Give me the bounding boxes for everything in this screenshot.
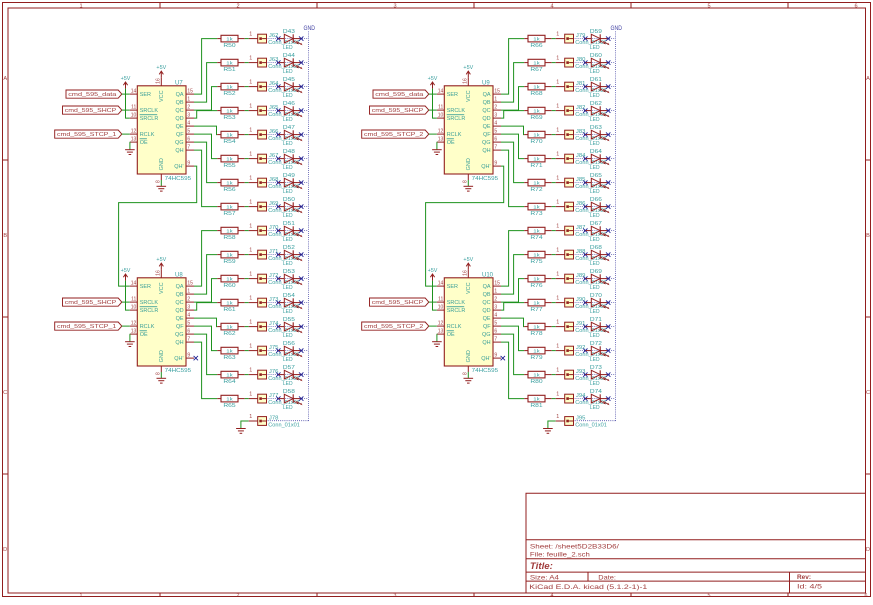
svg-text:1: 1 — [556, 368, 559, 374]
svg-text:QB: QB — [483, 292, 491, 298]
note line to GND bus — [267, 302, 309, 304]
resistor R58 — [217, 227, 245, 241]
connector J95 Conn_01x01 pin 1 — [556, 414, 607, 428]
svg-text:R71: R71 — [530, 163, 542, 169]
svg-text:R79: R79 — [530, 355, 542, 361]
note line to GND bus — [267, 254, 309, 256]
no-connect flag — [606, 324, 610, 328]
wire +5V to SRCLR — [126, 89, 130, 119]
svg-text:OE: OE — [140, 140, 148, 146]
wire R54 to J66 — [245, 134, 249, 136]
no-connect flag — [299, 156, 303, 160]
svg-text:2: 2 — [494, 105, 497, 111]
power +5V on VCC pin 16 — [463, 257, 473, 270]
svg-text:1: 1 — [249, 128, 252, 134]
note line to GND bus — [574, 278, 616, 280]
wire R72 to J85 — [552, 182, 556, 184]
svg-text:R73: R73 — [530, 211, 542, 217]
svg-text:cmd_595_data: cmd_595_data — [68, 92, 117, 98]
svg-text:13: 13 — [131, 329, 137, 335]
svg-text:1: 1 — [249, 296, 252, 302]
no-connect flag — [583, 132, 587, 136]
svg-text:J80: J80 — [576, 57, 586, 63]
no-connect flag — [276, 396, 280, 400]
wire R56 to J68 — [245, 182, 249, 184]
LED D49 — [279, 173, 303, 195]
svg-text:7: 7 — [187, 145, 190, 151]
svg-text:QE: QE — [483, 316, 491, 322]
svg-text:D45: D45 — [283, 77, 295, 83]
svg-text:D66: D66 — [590, 197, 602, 203]
wire IC output to R61 — [194, 303, 217, 311]
no-connect flag — [276, 348, 280, 352]
connector J84 Conn_01x01 pin 1 — [556, 152, 607, 166]
LED D51 — [279, 221, 303, 243]
svg-text:1: 1 — [79, 3, 82, 9]
svg-text:J94: J94 — [576, 393, 586, 399]
no-connect flag on QH' — [194, 356, 198, 360]
note line to GND bus — [574, 302, 616, 304]
svg-text:J65: J65 — [269, 105, 279, 111]
svg-text:3: 3 — [394, 593, 397, 599]
svg-text:QD: QD — [175, 308, 183, 314]
wire R75 to J88 — [552, 254, 556, 256]
svg-text:D67: D67 — [590, 221, 602, 227]
note line to GND bus — [267, 182, 309, 184]
svg-text:1k: 1k — [226, 84, 233, 90]
svg-text:QF: QF — [176, 324, 184, 330]
wire IC output to R79 — [501, 326, 524, 351]
svg-text:14: 14 — [131, 281, 137, 287]
note line to GND bus — [574, 158, 616, 160]
wire IC output to R50 — [194, 39, 217, 95]
no-connect flag — [299, 276, 303, 280]
svg-text:5: 5 — [494, 129, 497, 135]
svg-text:J79: J79 — [576, 33, 586, 39]
svg-text:16: 16 — [156, 78, 162, 84]
resistor R57 — [217, 203, 245, 217]
note line to GND bus — [574, 62, 616, 64]
connector J82 Conn_01x01 pin 1 — [556, 104, 607, 118]
svg-text:LED: LED — [590, 357, 600, 363]
LED D54 — [279, 293, 303, 315]
connector J70 Conn_01x01 pin 1 — [249, 224, 300, 238]
svg-text:12: 12 — [438, 321, 444, 327]
svg-text:J67: J67 — [269, 153, 279, 159]
svg-text:1: 1 — [556, 176, 559, 182]
note line to GND bus — [574, 110, 616, 112]
svg-text:D56: D56 — [283, 341, 295, 347]
svg-text:J82: J82 — [576, 105, 586, 111]
svg-text:RCLK: RCLK — [140, 324, 155, 330]
svg-text:74HC595: 74HC595 — [165, 368, 192, 374]
svg-text:10: 10 — [131, 305, 137, 311]
resistor R51 — [217, 59, 245, 73]
svg-text:J68: J68 — [269, 177, 279, 183]
svg-text:D72: D72 — [590, 341, 602, 347]
svg-text:D43: D43 — [283, 29, 295, 35]
connector J83 Conn_01x01 pin 1 — [556, 128, 607, 142]
connector J71 Conn_01x01 pin 1 — [249, 248, 300, 262]
connector J73 Conn_01x01 pin 1 — [249, 296, 300, 310]
no-connect flag — [583, 36, 587, 40]
svg-text:GND: GND — [303, 25, 315, 32]
svg-text:1k: 1k — [226, 204, 233, 210]
resistor R81 — [524, 395, 552, 409]
svg-text:11: 11 — [438, 105, 443, 111]
svg-text:3: 3 — [187, 113, 190, 119]
svg-text:J66: J66 — [269, 129, 279, 135]
svg-text:1: 1 — [556, 224, 559, 230]
svg-text:LED: LED — [283, 45, 293, 51]
svg-text:SRCLK: SRCLK — [447, 300, 466, 306]
resistor R61 — [217, 299, 245, 313]
LED D63 — [586, 125, 610, 147]
no-connect flag — [583, 300, 587, 304]
svg-text:cmd_595_SHCP: cmd_595_SHCP — [372, 108, 424, 114]
svg-text:J78: J78 — [269, 416, 279, 422]
svg-text:LED: LED — [590, 285, 600, 291]
svg-text:QD: QD — [482, 308, 490, 314]
svg-text:QF: QF — [483, 132, 491, 138]
svg-text:16: 16 — [463, 78, 469, 84]
svg-text:LED: LED — [590, 45, 600, 51]
wire label to RCLK — [429, 325, 437, 327]
svg-text:D54: D54 — [283, 293, 295, 299]
svg-text:1: 1 — [494, 97, 497, 103]
svg-text:4: 4 — [187, 121, 190, 127]
svg-text:LED: LED — [590, 261, 600, 267]
svg-text:LED: LED — [590, 69, 600, 75]
svg-text:R65: R65 — [223, 403, 235, 409]
svg-text:QH': QH' — [174, 356, 183, 362]
svg-text:SRCLK: SRCLK — [140, 300, 159, 306]
svg-text:LED: LED — [590, 141, 600, 147]
svg-text:J75: J75 — [269, 345, 279, 351]
note line to GND bus — [574, 326, 616, 328]
no-connect flag — [606, 84, 610, 88]
wire IC output to R57 — [194, 150, 217, 207]
svg-text:SRCLR: SRCLR — [447, 116, 466, 122]
svg-text:14: 14 — [438, 89, 444, 95]
svg-text:QC: QC — [175, 108, 183, 114]
svg-text:Id: 4/5: Id: 4/5 — [797, 583, 823, 590]
svg-text:J86: J86 — [576, 201, 586, 207]
note line to GND bus — [267, 374, 309, 376]
resistor R71 — [524, 155, 552, 169]
svg-text:cmd_595_STCP_1: cmd_595_STCP_1 — [57, 324, 116, 330]
shift register U9 74HC595 — [437, 78, 501, 183]
power +5V to SRCLR pin 10 — [428, 76, 438, 89]
svg-text:J72: J72 — [269, 273, 279, 279]
note line to GND bus — [574, 134, 616, 136]
svg-text:D60: D60 — [590, 53, 602, 59]
wire IC output to R69 — [501, 111, 524, 119]
wire IC output to R73 — [501, 150, 524, 207]
svg-text:SRCLK: SRCLK — [447, 108, 466, 114]
no-connect flag — [276, 132, 280, 136]
svg-text:1: 1 — [556, 344, 559, 350]
connector J89 Conn_01x01 pin 1 — [556, 272, 607, 286]
svg-text:Date:: Date: — [598, 574, 616, 581]
svg-text:LED: LED — [283, 117, 293, 123]
connector J68 Conn_01x01 pin 1 — [249, 176, 300, 190]
wire +5V to SRCLR — [433, 89, 437, 119]
svg-text:D52: D52 — [283, 245, 295, 251]
power +5V to SRCLR pin 10 — [121, 76, 131, 89]
resistor R64 — [217, 371, 245, 385]
wire cascade QH' to SER — [426, 166, 504, 286]
svg-text:J92: J92 — [576, 345, 586, 351]
resistor R77 — [524, 299, 552, 313]
connector J86 Conn_01x01 pin 1 — [556, 200, 607, 214]
note line to GND bus — [574, 86, 616, 88]
svg-text:74HC595: 74HC595 — [165, 176, 192, 182]
svg-text:File: feuille_2.sch: File: feuille_2.sch — [530, 551, 591, 558]
svg-text:D63: D63 — [590, 125, 602, 131]
no-connect flag — [299, 36, 303, 40]
wire label to SRCLK — [122, 109, 130, 111]
note line to GND bus — [267, 206, 309, 208]
no-connect flag — [299, 60, 303, 64]
wire R50 to J62 — [245, 38, 249, 40]
svg-text:1: 1 — [556, 320, 559, 326]
svg-text:1k: 1k — [533, 36, 540, 42]
connector J75 Conn_01x01 pin 1 — [249, 344, 300, 358]
svg-text:R78: R78 — [530, 331, 542, 337]
connector J63 Conn_01x01 pin 1 — [249, 56, 300, 70]
svg-text:2: 2 — [187, 297, 190, 303]
no-connect flag — [276, 252, 280, 256]
power GND on J95 — [543, 429, 553, 434]
LED D52 — [279, 245, 303, 267]
note line to GND bus — [574, 230, 616, 232]
no-connect flag — [276, 180, 280, 184]
svg-text:1k: 1k — [226, 252, 233, 258]
shift register U10 74HC595 — [437, 270, 501, 375]
svg-text:R51: R51 — [223, 67, 235, 73]
svg-text:1k: 1k — [226, 36, 233, 42]
no-connect flag — [299, 132, 303, 136]
no-connect flag — [583, 276, 587, 280]
resistor R62 — [217, 323, 245, 337]
svg-text:QC: QC — [482, 300, 490, 306]
svg-text:R52: R52 — [223, 91, 235, 97]
connector J88 Conn_01x01 pin 1 — [556, 248, 607, 262]
svg-text:C: C — [866, 390, 870, 396]
LED D47 — [279, 125, 303, 147]
svg-text:VCC: VCC — [466, 90, 472, 102]
svg-text:D71: D71 — [590, 317, 602, 323]
svg-text:1: 1 — [249, 56, 252, 62]
svg-text:LED: LED — [283, 333, 293, 339]
no-connect flag — [276, 60, 280, 64]
svg-text:9: 9 — [187, 161, 190, 167]
svg-text:cmd_595_SHCP: cmd_595_SHCP — [65, 300, 117, 306]
connector J94 Conn_01x01 pin 1 — [556, 392, 607, 406]
svg-text:7: 7 — [187, 337, 190, 343]
svg-text:7: 7 — [494, 145, 497, 151]
svg-text:VCC: VCC — [159, 282, 165, 294]
svg-text:Rev:: Rev: — [797, 574, 811, 581]
svg-text:1k: 1k — [533, 204, 540, 210]
LED D74 — [586, 389, 610, 411]
svg-text:3: 3 — [494, 305, 497, 311]
svg-text:R53: R53 — [223, 115, 235, 121]
svg-text:J95: J95 — [576, 416, 586, 422]
connector J76 Conn_01x01 pin 1 — [249, 368, 300, 382]
svg-text:1k: 1k — [226, 132, 233, 138]
resistor R74 — [524, 227, 552, 241]
svg-text:3: 3 — [393, 3, 396, 9]
wire label to RCLK — [122, 133, 130, 135]
wire OE to GND — [129, 334, 131, 341]
svg-text:SER: SER — [140, 284, 151, 290]
svg-text:QA: QA — [176, 284, 184, 290]
wire IC output to R67 — [501, 63, 524, 103]
power GND on J78 — [236, 429, 246, 434]
resistor R73 — [524, 203, 552, 217]
svg-text:1: 1 — [249, 80, 252, 86]
svg-text:cmd_595_SHCP: cmd_595_SHCP — [65, 108, 117, 114]
connector J87 Conn_01x01 pin 1 — [556, 224, 607, 238]
note line to GND bus — [267, 134, 309, 136]
svg-text:13: 13 — [438, 329, 444, 335]
no-connect flag — [583, 228, 587, 232]
wire R76 to J89 — [552, 278, 556, 280]
LED D58 — [279, 389, 303, 411]
svg-text:74HC595: 74HC595 — [472, 176, 499, 182]
svg-text:QG: QG — [175, 332, 184, 338]
svg-text:1k: 1k — [226, 108, 233, 114]
wire IC output to R56 — [194, 142, 217, 183]
svg-text:1: 1 — [556, 296, 559, 302]
svg-text:R66: R66 — [530, 43, 542, 49]
svg-text:LED: LED — [283, 381, 293, 387]
svg-text:J76: J76 — [269, 369, 279, 375]
no-connect flag — [299, 300, 303, 304]
svg-text:J69: J69 — [269, 201, 279, 207]
power GND on pin 8 — [157, 180, 167, 191]
connector J85 Conn_01x01 pin 1 — [556, 176, 607, 190]
no-connect flag — [583, 180, 587, 184]
svg-text:U7: U7 — [175, 80, 183, 86]
wire R67 to J80 — [552, 62, 556, 64]
svg-text:R81: R81 — [530, 403, 542, 409]
svg-text:R80: R80 — [530, 379, 542, 385]
no-connect flag — [276, 276, 280, 280]
svg-text:GND: GND — [466, 158, 472, 170]
svg-text:QC: QC — [482, 108, 490, 114]
power GND on pin 8 — [464, 180, 474, 191]
svg-text:R54: R54 — [223, 139, 235, 145]
LED D43 — [279, 29, 303, 51]
svg-text:6: 6 — [494, 137, 497, 143]
svg-text:QD: QD — [482, 116, 490, 122]
connector J90 Conn_01x01 pin 1 — [556, 296, 607, 310]
wire label to SRCLK — [429, 301, 437, 303]
svg-text:1k: 1k — [533, 180, 540, 186]
svg-text:LED: LED — [590, 309, 600, 315]
svg-text:QB: QB — [176, 292, 184, 298]
svg-text:RCLK: RCLK — [447, 132, 462, 138]
svg-text:1k: 1k — [226, 156, 233, 162]
svg-text:1: 1 — [556, 104, 559, 110]
svg-text:6: 6 — [854, 3, 857, 9]
svg-text:1: 1 — [249, 176, 252, 182]
svg-text:5: 5 — [708, 593, 711, 599]
wire IC output to R71 — [501, 134, 524, 159]
global label cmd_595_STCP_1 — [55, 322, 122, 330]
svg-text:6: 6 — [187, 329, 190, 335]
no-connect flag — [276, 204, 280, 208]
svg-text:R57: R57 — [223, 211, 235, 217]
svg-text:LED: LED — [283, 213, 293, 219]
svg-text:1: 1 — [249, 414, 252, 420]
svg-text:QH: QH — [175, 148, 183, 154]
svg-text:R56: R56 — [223, 187, 235, 193]
svg-text:4: 4 — [494, 121, 497, 127]
svg-text:1k: 1k — [533, 156, 540, 162]
resistor R54 — [217, 131, 245, 145]
svg-text:J62: J62 — [269, 33, 279, 39]
note line to GND bus — [574, 254, 616, 256]
svg-text:QF: QF — [176, 132, 184, 138]
svg-text:12: 12 — [438, 129, 444, 135]
connector J72 Conn_01x01 pin 1 — [249, 272, 300, 286]
svg-text:6: 6 — [187, 137, 190, 143]
wire +5V to SRCLR — [433, 281, 437, 311]
svg-text:11: 11 — [131, 105, 136, 111]
svg-text:QB: QB — [176, 100, 184, 106]
svg-text:D64: D64 — [590, 149, 602, 155]
global label cmd_595_SHCP — [63, 298, 122, 306]
LED D45 — [279, 77, 303, 99]
wire IC output to R76 — [501, 279, 524, 303]
wire R63 to J75 — [245, 350, 249, 352]
svg-text:J93: J93 — [576, 369, 586, 375]
svg-text:1k: 1k — [533, 324, 540, 330]
svg-text:15: 15 — [494, 89, 500, 95]
svg-text:J91: J91 — [576, 321, 586, 327]
svg-text:QH': QH' — [481, 356, 490, 362]
svg-text:R63: R63 — [223, 355, 235, 361]
note line to GND bus — [574, 374, 616, 376]
LED D57 — [279, 365, 303, 387]
svg-text:1k: 1k — [226, 228, 233, 234]
svg-text:VCC: VCC — [466, 282, 472, 294]
svg-text:OE: OE — [447, 140, 455, 146]
svg-text:1k: 1k — [533, 252, 540, 258]
svg-text:1: 1 — [249, 248, 252, 254]
svg-text:5: 5 — [494, 321, 497, 327]
svg-text:U10: U10 — [482, 272, 494, 278]
svg-text:J73: J73 — [269, 297, 279, 303]
no-connect flag — [606, 300, 610, 304]
svg-text:SRCLR: SRCLR — [140, 116, 159, 122]
svg-text:D50: D50 — [283, 197, 295, 203]
svg-text:A: A — [3, 76, 7, 82]
svg-text:10: 10 — [438, 113, 444, 119]
svg-text:13: 13 — [438, 137, 444, 143]
svg-text:Sheet: /sheet5D2B33D6/: Sheet: /sheet5D2B33D6/ — [530, 543, 619, 550]
note line to GND bus — [267, 398, 309, 400]
svg-text:QA: QA — [483, 92, 491, 98]
connector J80 Conn_01x01 pin 1 — [556, 56, 607, 70]
no-connect flag — [299, 84, 303, 88]
svg-text:D70: D70 — [590, 293, 602, 299]
no-connect flag — [299, 180, 303, 184]
